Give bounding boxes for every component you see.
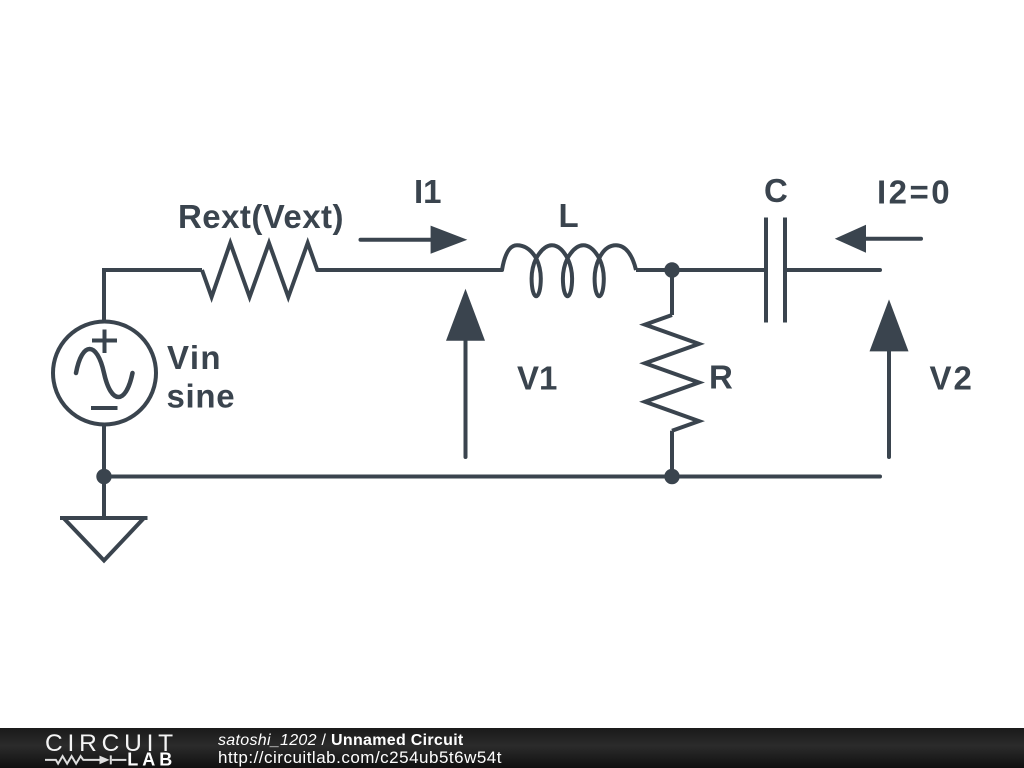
footer text line 2: url <box>218 750 502 766</box>
current arrow I1 shaft <box>361 238 438 242</box>
footer text line 1: author / title <box>218 733 464 749</box>
resistor R <box>645 315 699 431</box>
wire: node A down to resistor R <box>670 270 674 315</box>
wire: resistor R to ground net <box>670 431 674 477</box>
capacitor C plates <box>766 218 785 323</box>
wire: Rext to inductor L <box>317 268 502 272</box>
voltage source minus sign <box>91 406 118 410</box>
node A junction dot <box>664 262 679 277</box>
wire: capacitor to open output end <box>785 268 880 272</box>
svg-text:I2=0: I2=0 <box>877 173 952 210</box>
wire: source top terminal up and right to Rext <box>104 270 202 322</box>
voltage arrow V2 shaft <box>887 350 891 457</box>
footer bar <box>0 728 1024 768</box>
svg-text:sine: sine <box>167 378 236 415</box>
voltage source plus sign <box>92 330 117 354</box>
voltage source Vin circle <box>53 322 156 425</box>
svg-text:LAB: LAB <box>127 750 176 768</box>
current arrow I2 shaft <box>864 237 921 241</box>
ground symbol <box>60 518 148 561</box>
logo diode triangle <box>100 756 110 765</box>
resistor Rext(Vext) <box>202 243 317 297</box>
svg-text:Rext(Vext): Rext(Vext) <box>178 198 344 235</box>
voltage arrow V1 shaft <box>464 338 468 457</box>
svg-text:V1: V1 <box>517 360 557 397</box>
current arrow I1 head <box>431 226 468 254</box>
svg-text:I1: I1 <box>414 173 442 210</box>
bottom ground net wire <box>104 475 880 479</box>
current arrow I2 head <box>835 225 866 253</box>
svg-text:Vin: Vin <box>167 339 222 376</box>
logo resistor-diode symbol <box>45 755 126 764</box>
svg-text:R: R <box>709 359 733 396</box>
CircuitLab logo <box>40 728 240 768</box>
junction dot: R bottom <box>664 469 679 484</box>
wire: source bottom terminal <box>102 425 106 477</box>
svg-text:L: L <box>559 197 579 234</box>
voltage arrow V2 head <box>870 299 909 351</box>
wire: ground node to ground symbol <box>102 477 106 519</box>
voltage arrow V1 head <box>446 289 485 341</box>
junction dot: source bottom <box>96 469 111 484</box>
svg-text:V2: V2 <box>930 360 974 397</box>
wire: inductor to capacitor <box>636 268 766 272</box>
inductor L <box>502 245 636 296</box>
svg-text:C: C <box>764 172 788 209</box>
voltage source sine waveform <box>76 349 133 397</box>
